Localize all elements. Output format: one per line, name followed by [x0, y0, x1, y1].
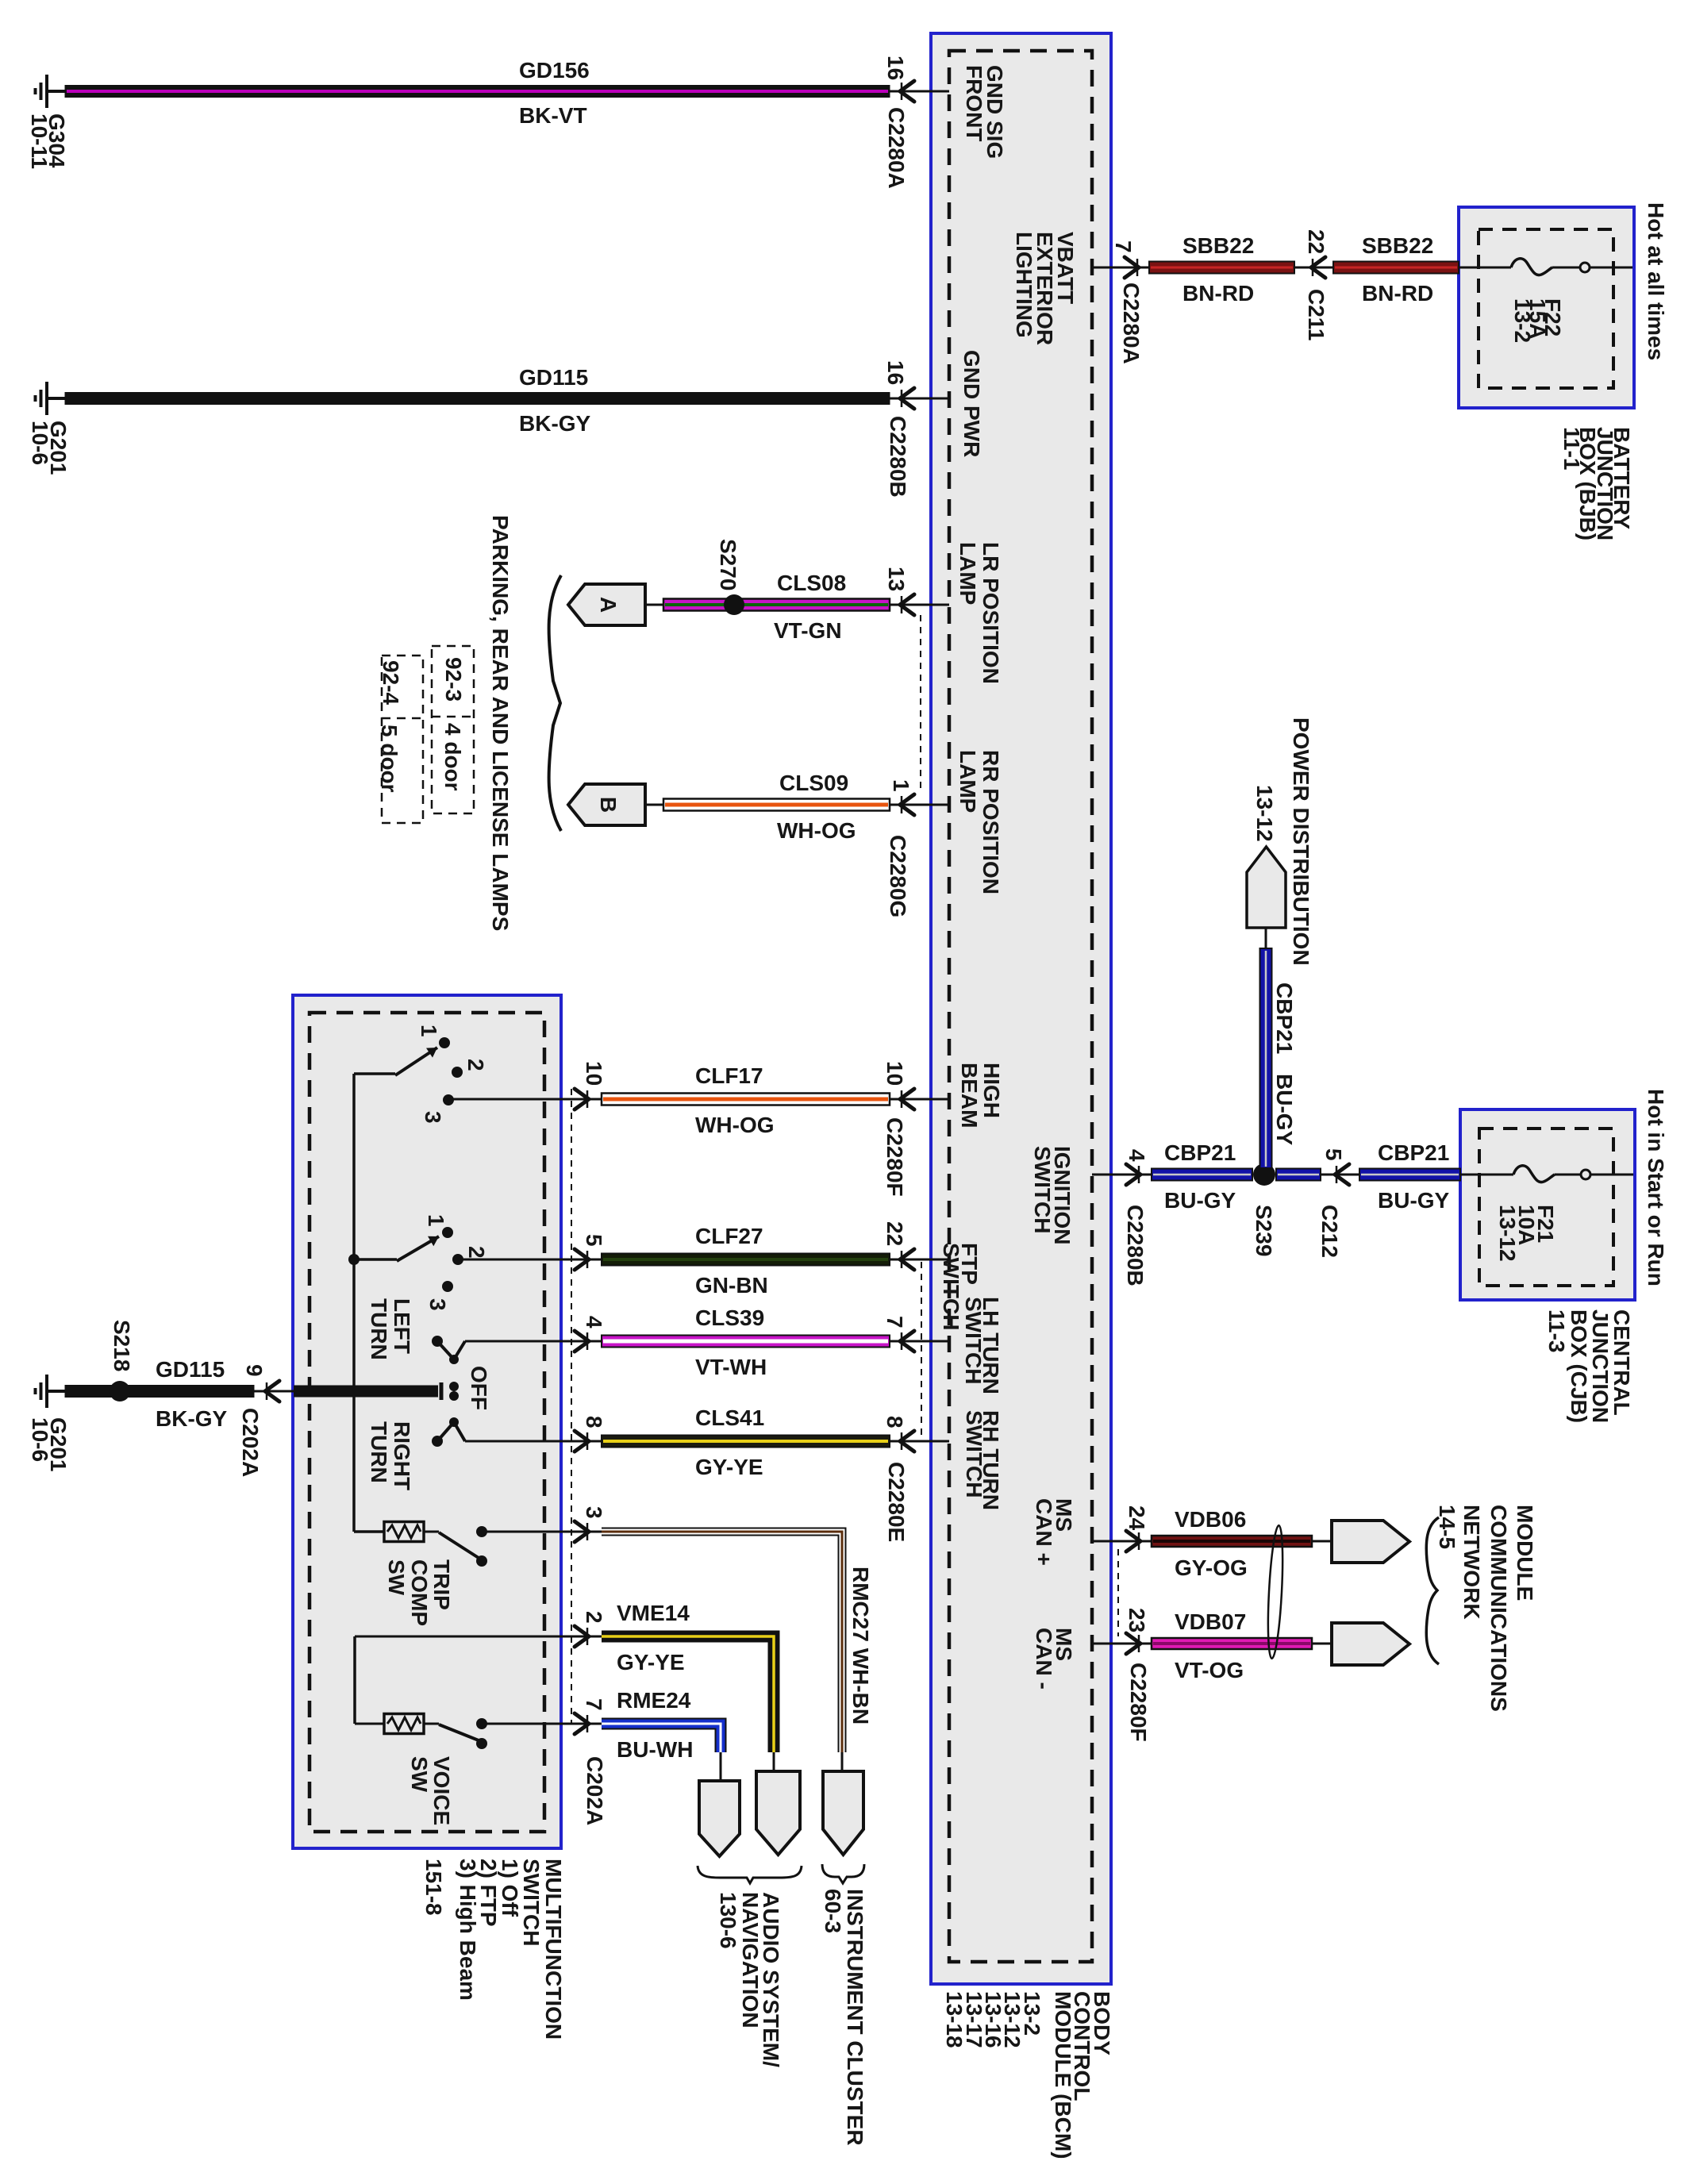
svg-text:7: 7: [582, 1698, 606, 1711]
svg-text:GN-BN: GN-BN: [695, 1273, 768, 1298]
svg-text:11-1: 11-1: [1559, 427, 1584, 471]
svg-text:BK-GY: BK-GY: [156, 1406, 228, 1431]
svg-text:MODULE: MODULE: [1513, 1505, 1537, 1601]
svg-text:60-3: 60-3: [821, 1889, 845, 1933]
svg-text:11-3: 11-3: [1544, 1309, 1569, 1353]
svg-text:C2280E: C2280E: [884, 1462, 909, 1542]
svg-text:13-12: 13-12: [1495, 1205, 1520, 1262]
svg-text:1: 1: [424, 1214, 448, 1227]
svg-text:10: 10: [582, 1061, 606, 1086]
svg-text:FRONT: FRONT: [962, 65, 986, 141]
svg-text:GY-YE: GY-YE: [695, 1455, 763, 1479]
svg-text:13-12: 13-12: [1252, 785, 1277, 842]
svg-text:C2280F: C2280F: [883, 1117, 907, 1197]
svg-text:MODULE (BCM): MODULE (BCM): [1051, 1991, 1075, 2159]
svg-text:LAMP: LAMP: [956, 542, 980, 605]
svg-text:5: 5: [1321, 1148, 1346, 1161]
svg-text:16: 16: [883, 360, 908, 385]
svg-text:CBP21: CBP21: [1164, 1140, 1236, 1165]
svg-text:151-8: 151-8: [421, 1859, 446, 1916]
svg-text:22: 22: [883, 1221, 907, 1246]
svg-text:C2280A: C2280A: [1119, 283, 1144, 364]
svg-text:SBB22: SBB22: [1182, 233, 1254, 258]
svg-text:CBP21: CBP21: [1272, 982, 1297, 1054]
svg-text:BOX (CJB): BOX (CJB): [1567, 1309, 1591, 1423]
svg-text:Hot at all times: Hot at all times: [1644, 202, 1668, 360]
svg-text:A: A: [596, 597, 621, 613]
svg-text:1: 1: [889, 779, 913, 792]
svg-text:7: 7: [883, 1316, 907, 1328]
svg-text:SWITCH: SWITCH: [961, 1297, 986, 1384]
svg-text:LAMP: LAMP: [956, 750, 980, 813]
svg-text:S218: S218: [110, 1320, 134, 1371]
svg-text:CAN +: CAN +: [1032, 1498, 1056, 1566]
svg-text:10-6: 10-6: [28, 1417, 52, 1462]
svg-text:3: 3: [421, 1111, 445, 1124]
svg-text:10: 10: [883, 1061, 907, 1086]
svg-text:COMMUNICATIONS: COMMUNICATIONS: [1486, 1505, 1511, 1712]
svg-text:10-6: 10-6: [28, 421, 52, 465]
svg-text:BN-RD: BN-RD: [1182, 281, 1254, 306]
svg-text:13-18: 13-18: [942, 1991, 967, 2048]
svg-text:4 door: 4 door: [440, 723, 465, 791]
svg-text:GD115: GD115: [156, 1357, 225, 1382]
svg-text:C202A: C202A: [583, 1756, 607, 1825]
svg-text:BN-RD: BN-RD: [1362, 281, 1433, 306]
svg-text:8: 8: [883, 1416, 907, 1428]
svg-text:GD156: GD156: [519, 58, 590, 83]
svg-text:CBP21: CBP21: [1378, 1140, 1449, 1165]
svg-text:CLF17: CLF17: [695, 1063, 763, 1088]
svg-text:92-3: 92-3: [441, 657, 466, 702]
svg-text:C212: C212: [1317, 1205, 1342, 1258]
svg-text:14-5: 14-5: [1435, 1505, 1459, 1549]
svg-text:HIGH: HIGH: [979, 1063, 1004, 1118]
svg-text:23: 23: [1125, 1608, 1149, 1632]
svg-text:CLS09: CLS09: [779, 771, 848, 795]
svg-text:2: 2: [464, 1246, 489, 1259]
svg-text:C2280B: C2280B: [886, 416, 910, 498]
svg-text:SW: SW: [384, 1559, 409, 1596]
svg-text:GY-OG: GY-OG: [1175, 1555, 1248, 1580]
svg-text:GND PWR: GND PWR: [959, 350, 984, 457]
svg-text:3: 3: [582, 1506, 606, 1519]
svg-text:SWITCH: SWITCH: [1030, 1146, 1055, 1233]
svg-text:13: 13: [884, 567, 909, 591]
svg-text:WH-OG: WH-OG: [695, 1113, 775, 1137]
svg-text:S270: S270: [716, 539, 740, 590]
svg-text:VT-OG: VT-OG: [1175, 1658, 1244, 1682]
svg-text:CAN -: CAN -: [1032, 1628, 1056, 1690]
svg-text:GD115: GD115: [519, 365, 588, 390]
svg-text:3) High Beam: 3) High Beam: [456, 1859, 480, 2001]
svg-text:SW: SW: [407, 1756, 432, 1793]
svg-text:4: 4: [582, 1316, 606, 1328]
svg-text:92-4: 92-4: [379, 660, 403, 705]
svg-text:LIGHTING: LIGHTING: [1012, 232, 1036, 338]
svg-text:C202A: C202A: [238, 1408, 263, 1477]
svg-text:22: 22: [1304, 229, 1329, 254]
svg-text:CLS39: CLS39: [695, 1305, 764, 1330]
svg-text:C2280G: C2280G: [886, 835, 910, 917]
svg-text:WH-OG: WH-OG: [777, 818, 856, 843]
svg-text:RIGHT: RIGHT: [390, 1421, 414, 1490]
svg-text:S239: S239: [1252, 1205, 1276, 1256]
svg-text:1: 1: [417, 1025, 441, 1037]
svg-text:VT-WH: VT-WH: [695, 1355, 767, 1379]
svg-text:BU-WH: BU-WH: [617, 1737, 693, 1762]
svg-text:VDB07: VDB07: [1175, 1609, 1246, 1634]
svg-text:COMP: COMP: [407, 1559, 432, 1626]
svg-text:GY-YE: GY-YE: [617, 1650, 685, 1675]
svg-text:RMC27 WH-BN: RMC27 WH-BN: [848, 1567, 873, 1725]
svg-text:130-6: 130-6: [716, 1892, 740, 1949]
svg-text:TURN: TURN: [367, 1298, 391, 1360]
svg-text:2: 2: [582, 1611, 606, 1624]
svg-text:NAVIGATION: NAVIGATION: [738, 1892, 763, 2028]
svg-text:SBB22: SBB22: [1362, 233, 1433, 258]
svg-text:C2280F: C2280F: [1126, 1663, 1151, 1742]
svg-text:Hot in Start or Run: Hot in Start or Run: [1644, 1089, 1668, 1286]
svg-text:OFF: OFF: [467, 1366, 491, 1410]
svg-text:MULTIFUNCTION: MULTIFUNCTION: [541, 1859, 566, 2040]
svg-text:C2280B: C2280B: [1123, 1205, 1148, 1286]
svg-text:RME24: RME24: [617, 1688, 691, 1713]
svg-text:C211: C211: [1304, 289, 1329, 340]
svg-text:BK-GY: BK-GY: [519, 411, 591, 436]
svg-text:CLS08: CLS08: [777, 571, 846, 595]
svg-text:CLF27: CLF27: [695, 1224, 763, 1248]
svg-text:LEFT: LEFT: [390, 1298, 414, 1354]
svg-text:LR POSITION: LR POSITION: [979, 542, 1003, 684]
svg-text:5: 5: [582, 1234, 606, 1247]
svg-text:POWER DISTRIBUTION: POWER DISTRIBUTION: [1289, 717, 1313, 966]
svg-text:SWITCH: SWITCH: [962, 1410, 986, 1498]
svg-text:VT-GN: VT-GN: [774, 618, 842, 643]
svg-text:TRIP: TRIP: [429, 1559, 454, 1610]
svg-text:3: 3: [425, 1298, 450, 1311]
svg-text:B: B: [596, 797, 621, 813]
svg-text:C2280A: C2280A: [884, 107, 909, 189]
svg-text:PARKING, REAR AND LICENSE LAMP: PARKING, REAR AND LICENSE LAMPS: [488, 515, 513, 931]
svg-text:BU-GY: BU-GY: [1378, 1188, 1450, 1213]
svg-text:2: 2: [463, 1059, 488, 1071]
svg-text:9: 9: [242, 1364, 267, 1377]
svg-text:5 door: 5 door: [377, 725, 402, 793]
svg-text:13-2: 13-2: [1510, 298, 1535, 343]
svg-text:BK-VT: BK-VT: [519, 103, 587, 128]
svg-text:4: 4: [1125, 1149, 1149, 1162]
svg-text:RR POSITION: RR POSITION: [979, 750, 1003, 894]
svg-text:BEAM: BEAM: [957, 1063, 982, 1128]
svg-text:VDB06: VDB06: [1175, 1507, 1246, 1532]
svg-text:INSTRUMENT CLUSTER: INSTRUMENT CLUSTER: [843, 1889, 867, 2146]
svg-text:8: 8: [582, 1416, 606, 1428]
svg-text:7: 7: [1111, 240, 1136, 253]
svg-text:24: 24: [1125, 1505, 1149, 1531]
svg-text:CLS41: CLS41: [695, 1405, 764, 1430]
svg-text:SWITCH: SWITCH: [939, 1243, 963, 1330]
svg-text:BU-GY: BU-GY: [1272, 1074, 1297, 1146]
svg-text:NETWORK: NETWORK: [1459, 1505, 1484, 1620]
svg-text:VOICE: VOICE: [429, 1756, 454, 1825]
svg-text:TURN: TURN: [367, 1421, 391, 1483]
svg-text:BU-GY: BU-GY: [1164, 1188, 1236, 1213]
svg-text:VME14: VME14: [617, 1601, 690, 1625]
svg-text:16: 16: [883, 56, 908, 80]
svg-text:10-11: 10-11: [27, 113, 52, 169]
